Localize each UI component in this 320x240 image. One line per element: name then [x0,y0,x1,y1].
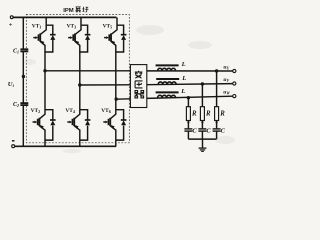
svg-text:IPM: IPM [63,8,74,14]
svg-text:VT3: VT3 [67,24,77,30]
svg-text:C2: C2 [13,102,19,108]
svg-text:C: C [192,128,197,135]
svg-text:R: R [191,111,197,118]
svg-text:R: R [219,111,225,118]
svg-text:VT4: VT4 [65,108,75,114]
svg-text:uV: uV [223,77,229,83]
svg-text:+: + [9,22,13,29]
svg-text:C: C [206,128,211,135]
svg-text:L: L [181,75,186,82]
svg-text:uU: uU [223,65,229,71]
svg-text:Ui: Ui [8,81,15,88]
svg-text:L: L [181,61,186,68]
svg-text:L: L [180,88,185,95]
svg-text:VT5: VT5 [103,24,113,30]
svg-text:C1: C1 [13,49,19,55]
svg-text:C: C [221,128,226,135]
svg-text:uW: uW [223,90,230,96]
svg-text:VT2: VT2 [31,108,40,114]
svg-text:VT6: VT6 [101,108,111,114]
svg-text:VT1: VT1 [32,24,42,30]
svg-text:R: R [205,111,211,118]
